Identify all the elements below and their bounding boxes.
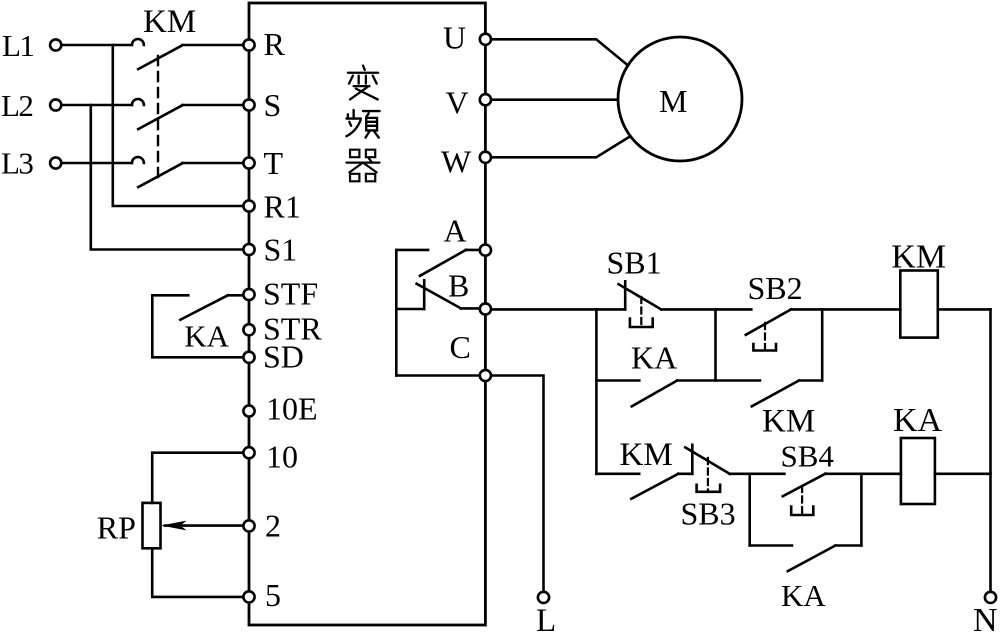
svg-text:W: W [441,144,472,180]
svg-text:10: 10 [266,439,298,475]
svg-text:A: A [444,213,467,249]
svg-text:KA: KA [893,402,943,439]
svg-text:KA: KA [184,319,229,354]
svg-text:L2: L2 [1,88,32,123]
svg-text:T: T [264,145,284,181]
svg-text:KA: KA [631,340,677,376]
svg-text:KM: KM [620,437,673,473]
svg-text:SB1: SB1 [607,245,662,281]
svg-text:R1: R1 [264,189,301,225]
svg-text:SB3: SB3 [681,496,736,532]
svg-text:S: S [264,87,282,123]
svg-text:KA: KA [781,578,826,613]
svg-text:10E: 10E [266,391,318,427]
svg-text:SD: SD [263,339,304,375]
svg-text:B: B [448,268,469,304]
svg-text:U: U [443,20,466,56]
svg-text:L3: L3 [1,146,33,181]
svg-text:2: 2 [265,508,281,544]
svg-text:SB2: SB2 [748,270,803,306]
svg-text:KM: KM [891,239,946,276]
svg-text:S1: S1 [264,232,298,268]
svg-text:KM: KM [143,4,196,40]
svg-text:L: L [536,603,556,632]
svg-text:M: M [659,83,687,119]
svg-text:L1: L1 [2,28,33,63]
svg-text:RP: RP [97,510,136,546]
svg-text:5: 5 [265,577,281,613]
svg-text:V: V [446,85,469,121]
svg-text:SB4: SB4 [781,439,835,474]
svg-text:N: N [973,602,998,632]
svg-text:KM: KM [762,404,815,440]
svg-text:C: C [450,329,471,365]
svg-text:STF: STF [263,276,318,312]
svg-text:R: R [264,26,286,62]
